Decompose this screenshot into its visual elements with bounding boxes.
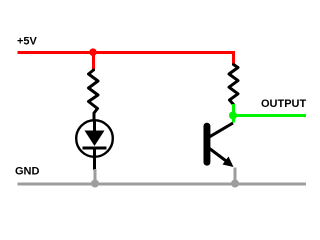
svg-text:OUTPUT: OUTPUT	[261, 98, 307, 110]
svg-text:GND: GND	[15, 166, 40, 178]
svg-text:+5V: +5V	[17, 36, 38, 48]
